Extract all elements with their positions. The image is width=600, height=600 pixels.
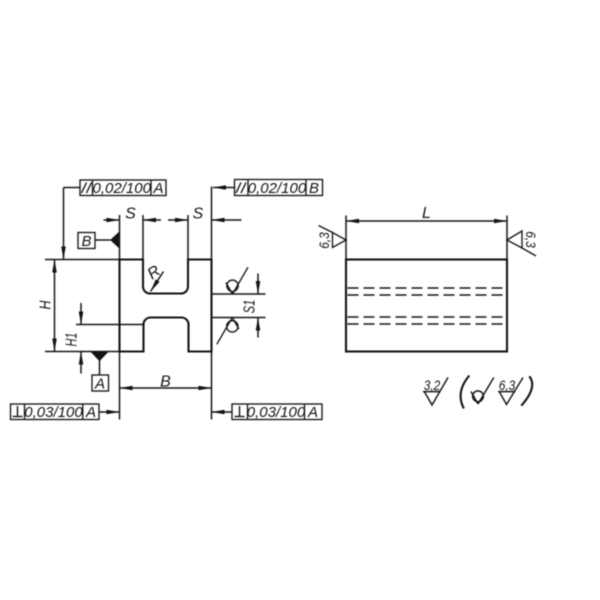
svg-text:6,3: 6,3 xyxy=(523,231,539,248)
svg-text:6,3: 6,3 xyxy=(499,377,516,393)
svg-text:H: H xyxy=(37,300,55,310)
svg-text:B: B xyxy=(309,180,319,197)
svg-text:A: A xyxy=(152,180,163,197)
svg-text:0,03/100: 0,03/100 xyxy=(24,404,83,421)
svg-text:A: A xyxy=(85,404,96,421)
svg-text:A: A xyxy=(307,404,318,421)
svg-text:S1: S1 xyxy=(239,300,258,314)
svg-text:0,02/100: 0,02/100 xyxy=(248,180,307,197)
svg-text:A: A xyxy=(94,376,105,393)
svg-text:B: B xyxy=(81,233,91,250)
svg-text:6,3: 6,3 xyxy=(316,232,332,249)
svg-text:3,2: 3,2 xyxy=(424,377,441,393)
svg-text:B: B xyxy=(160,374,171,391)
svg-text:0,02/100: 0,02/100 xyxy=(93,180,152,197)
svg-text:0,03/100: 0,03/100 xyxy=(247,404,306,421)
svg-text:S: S xyxy=(193,206,204,223)
svg-text:H1: H1 xyxy=(62,333,80,347)
svg-text:L: L xyxy=(422,205,431,222)
svg-text:S: S xyxy=(125,206,136,223)
